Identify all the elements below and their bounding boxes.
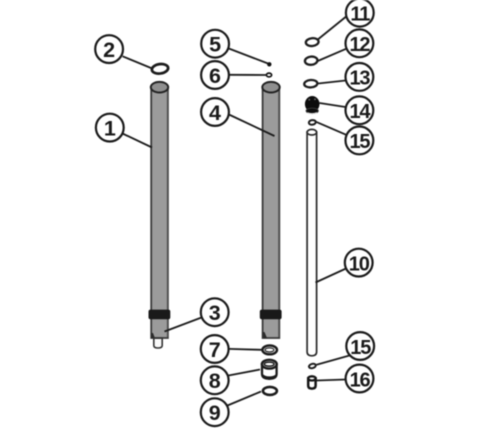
leader line to part 15 top — [316, 122, 347, 135]
callout 14 — [346, 96, 374, 124]
svg-text:3: 3 — [209, 301, 221, 325]
tube T2 top cap ellipse — [262, 82, 279, 93]
cap nut part 14 — [305, 96, 320, 114]
svg-text:4: 4 — [209, 101, 221, 125]
svg-text:1: 1 — [104, 116, 116, 140]
svg-text:10: 10 — [349, 253, 370, 275]
svg-text:2: 2 — [103, 38, 115, 62]
callout 1 — [96, 114, 124, 142]
leader line to part 14 — [320, 103, 346, 107]
leader line to part 3 — [165, 318, 202, 332]
svg-text:15: 15 — [350, 337, 371, 359]
svg-text:14: 14 — [349, 101, 371, 123]
o-ring part 9 — [263, 387, 277, 395]
svg-text:13: 13 — [349, 68, 370, 90]
tube T2 (part 4) body — [263, 87, 280, 338]
o-ring part 2 — [151, 63, 169, 75]
o-ring part 15 (top) — [309, 120, 317, 126]
tube T1 tip (bottom plug) — [154, 338, 162, 348]
leader line to part 11 — [318, 17, 346, 40]
svg-text:6: 6 — [209, 64, 221, 88]
callout 11 — [346, 0, 374, 27]
leader line to part 7 — [229, 348, 262, 351]
tube T1 (part 1) body — [151, 87, 168, 338]
leader line to part 12 — [318, 49, 346, 61]
callout 15 bottom — [346, 332, 374, 360]
o-ring part 15 (bottom) — [308, 363, 316, 369]
leader line to part 5 — [229, 49, 268, 64]
tube T2 dark band — [260, 310, 282, 320]
o-ring part 11 — [305, 38, 319, 47]
svg-text:16: 16 — [350, 369, 371, 391]
leader line to part 8 — [229, 370, 261, 376]
leader line to part 10 — [316, 269, 347, 283]
washer part 7 — [262, 346, 277, 355]
tube T1 bottom shadow — [151, 333, 155, 339]
callout 6 — [201, 61, 229, 89]
callout 8 — [201, 366, 229, 394]
leader line to part 4 — [229, 115, 275, 137]
svg-text:8: 8 — [209, 369, 221, 393]
leader line to part 9 — [228, 392, 262, 406]
svg-text:11: 11 — [350, 4, 370, 26]
leader line to part 13 — [318, 81, 345, 84]
tube T1 dark band — [149, 310, 171, 320]
callout 15 top — [346, 126, 374, 154]
screw part 5 (small dot) — [267, 62, 271, 66]
tiny ring part 6 — [266, 73, 271, 77]
o-ring part 12 — [305, 56, 318, 65]
callout 2 — [95, 35, 123, 63]
callout 4 — [201, 98, 229, 126]
callout 7 — [201, 335, 229, 363]
leader line to part 2 — [123, 56, 151, 68]
svg-text:12: 12 — [349, 34, 370, 56]
spacer part 16 — [308, 376, 315, 388]
callout 16 — [346, 365, 374, 393]
callout 12 — [346, 29, 374, 57]
tube T3 (part 10, thin white tube) — [307, 129, 317, 355]
o-ring part 13 — [304, 80, 318, 88]
leader line to part 1 — [123, 134, 153, 148]
bushing part 8 — [262, 360, 277, 379]
tube T1 top cap ellipse — [151, 82, 168, 93]
callout 13 — [346, 63, 374, 91]
leader line to part 16 — [317, 380, 346, 381]
leader line to part 6 — [229, 74, 267, 76]
svg-text:9: 9 — [209, 401, 221, 425]
callout 3 — [201, 298, 229, 326]
callout 9 — [201, 398, 229, 426]
callout 10 — [345, 249, 373, 277]
svg-text:5: 5 — [209, 33, 221, 57]
svg-text:15: 15 — [349, 131, 370, 153]
leader line to part 15 bottom — [317, 356, 350, 365]
svg-text:7: 7 — [209, 338, 221, 362]
tube T2 bottom shadow — [263, 332, 267, 338]
callout 5 — [201, 30, 229, 58]
